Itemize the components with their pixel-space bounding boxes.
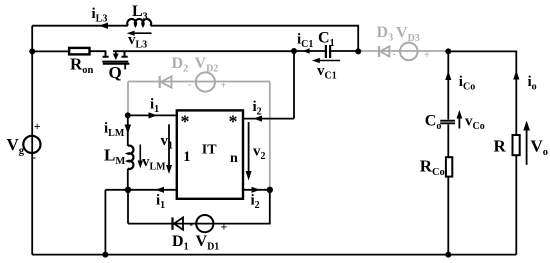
source Vg	[23, 136, 40, 153]
wire left rail	[31, 26, 33, 255]
diode D3 (grey branch)	[358, 43, 448, 61]
node D3 right	[445, 48, 451, 54]
svg-text:Q: Q	[109, 63, 122, 82]
diode D2 symbol	[159, 76, 161, 88]
svg-text:-: -	[32, 150, 36, 164]
wire node A to left sub rail	[105, 189, 128, 191]
wire i1 top from node to IT box	[128, 114, 177, 116]
arrow v1	[168, 124, 170, 166]
wire grey D2 branch right vertical	[269, 82, 271, 190]
capacitor Co	[440, 121, 455, 124]
arrowhead io	[513, 71, 519, 80]
wire node A drop to D1 branch	[127, 190, 129, 224]
source VD3 circle	[400, 43, 418, 61]
wire i1 bottom from node A to IT box	[128, 189, 177, 191]
node top of LM branch	[125, 112, 131, 118]
arrowhead iCo	[445, 71, 451, 80]
wire from D3 node to right corner and right rail down	[448, 51, 516, 254]
node A bottom of LM branch	[125, 187, 131, 193]
wire grey D2 branch top horizontal	[128, 81, 270, 83]
arrowhead i1 bottom	[156, 187, 165, 193]
arrowhead iC1	[303, 48, 310, 54]
resistor RCo	[446, 157, 452, 176]
wire magnetizing branch lower	[127, 169, 129, 190]
arrow vCo	[458, 116, 460, 129]
wire second row from Ron to C1 node	[89, 50, 294, 52]
wire i2 top from IT box to C1 drop	[243, 51, 294, 119]
wire C1 right connection	[330, 50, 358, 52]
wire i2 bottom from IT box to node B	[243, 189, 270, 191]
capacitor C1	[326, 45, 330, 58]
arrowhead i2 top	[254, 116, 263, 122]
node at left rail second row	[29, 48, 35, 54]
diode D1	[171, 217, 173, 229]
resistor R	[513, 135, 520, 155]
resistor Ron	[69, 48, 89, 55]
svg-text:IT: IT	[202, 142, 217, 157]
diode D3 symbol	[378, 46, 380, 57]
node bottom rail left	[102, 252, 108, 258]
source VD1	[196, 215, 213, 232]
svg-text:-: -	[188, 80, 191, 91]
inductor L3	[127, 19, 151, 26]
arrowhead i2 bottom	[252, 187, 261, 193]
node B below IT box right	[267, 187, 273, 193]
arrowhead iL3	[99, 23, 108, 29]
svg-text:+: +	[221, 220, 228, 234]
op transformer IT box	[177, 110, 243, 198]
svg-text:*: *	[229, 112, 238, 132]
inductor LM	[128, 146, 134, 169]
diode D2 (grey branch)	[128, 72, 270, 189]
svg-text:-: -	[393, 49, 396, 60]
node C1 right	[355, 48, 361, 54]
svg-text:n: n	[230, 151, 238, 166]
wire bottom rail	[32, 254, 516, 256]
arrowhead iLM	[125, 125, 132, 135]
wire D1 branch	[128, 190, 270, 224]
wire magnetizing branch upper	[127, 115, 129, 145]
arrow vC1	[316, 60, 340, 62]
wire top rail left segment	[32, 25, 128, 27]
svg-text:R: R	[494, 137, 507, 156]
svg-text:+: +	[424, 50, 430, 61]
arrow v2	[248, 122, 250, 172]
svg-text:1: 1	[183, 149, 190, 165]
arrow vL3	[130, 32, 152, 34]
wire C1 left connection	[294, 50, 326, 52]
svg-text:*: *	[181, 112, 190, 132]
svg-text:-: -	[190, 220, 193, 231]
wire left sub rail from node A down to bottom rail	[104, 190, 106, 255]
wire top rail right segment with corner down to C1 row	[151, 26, 359, 52]
arrowhead i1 top	[149, 112, 158, 118]
node bottom rail right	[445, 252, 451, 258]
wire grey D3 branch	[358, 50, 448, 52]
node C1 left	[291, 48, 297, 54]
wire grey D2 branch left vertical	[127, 82, 129, 116]
wire second row from left rail to Ron	[32, 50, 69, 52]
transistor Q (MOSFET)	[102, 51, 129, 69]
svg-text:+: +	[221, 81, 227, 92]
wire Co branch vertical	[447, 51, 449, 254]
svg-text:+: +	[34, 119, 41, 133]
arrow Vo	[526, 127, 528, 165]
arrow vLM	[139, 145, 141, 163]
source VD2 circle	[196, 72, 215, 91]
